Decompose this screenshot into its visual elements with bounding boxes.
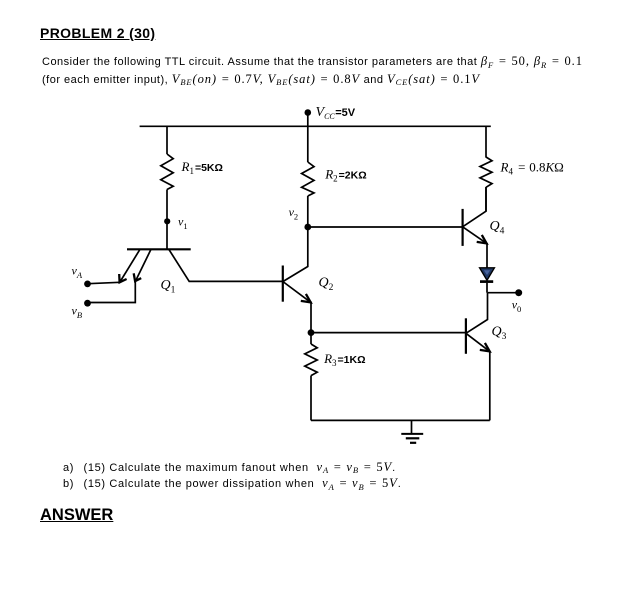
svg-text:R2=2KΩ: R2=2KΩ <box>324 167 366 184</box>
svg-text:vB: vB <box>72 304 83 321</box>
svg-text:VCC=5V: VCC=5V <box>316 105 356 121</box>
svg-text:v1: v1 <box>178 215 188 232</box>
svg-text:Q3: Q3 <box>492 325 507 343</box>
svg-text:Q2: Q2 <box>319 276 334 294</box>
svg-text:v2: v2 <box>289 205 299 222</box>
svg-text:vA: vA <box>72 264 83 281</box>
svg-text:R3=1KΩ: R3=1KΩ <box>323 351 365 368</box>
svg-text:Q1: Q1 <box>161 278 176 296</box>
svg-text:Q4: Q4 <box>490 219 505 237</box>
svg-text:R1=5KΩ: R1=5KΩ <box>181 159 223 176</box>
svg-text:v0: v0 <box>512 298 522 315</box>
svg-text:R4 = 0.8KΩ: R4 = 0.8KΩ <box>500 160 564 177</box>
